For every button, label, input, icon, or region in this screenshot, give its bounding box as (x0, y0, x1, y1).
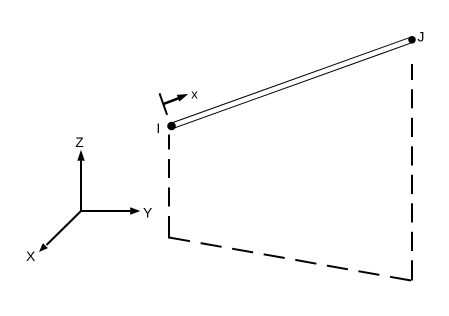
dashed projection line below J (right vertical) (411, 64, 413, 281)
dashed projection line bottom edge (169, 238, 411, 281)
svg-text:X: X (26, 248, 36, 264)
node J (408, 36, 416, 44)
local x-axis arrow (163, 94, 188, 104)
global axis Z (77, 150, 84, 211)
global axis Y (81, 207, 140, 214)
svg-text:J: J (417, 29, 424, 45)
local x-axis tick (160, 93, 168, 115)
element rod I-J outline (172, 40, 413, 126)
global axis X (39, 211, 81, 252)
svg-text:Y: Y (143, 205, 153, 221)
svg-text:Z: Z (75, 135, 83, 150)
svg-text:I: I (156, 120, 160, 136)
node I (167, 122, 176, 131)
dashed projection line below I (left vertical) (168, 135, 170, 239)
svg-text:x: x (191, 87, 198, 102)
